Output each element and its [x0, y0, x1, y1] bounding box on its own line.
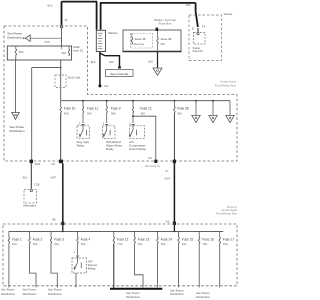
connector T101 on box edge: [30, 160, 33, 164]
svg-text:10A: 10A: [182, 242, 187, 246]
fuse Fuse 9 30A: [106, 101, 107, 114]
label T101: [35, 162, 41, 166]
fuse Fuse 28 40A: [174, 101, 175, 114]
label Windshield Wiper Motor Relay: [106, 140, 122, 151]
label Fuse 3 10A: [54, 238, 64, 247]
wire T101 to alternator: [30, 163, 32, 189]
svg-text:Distribution: Distribution: [48, 292, 62, 296]
svg-text:15A: 15A: [33, 242, 38, 246]
wire T1 to Multi fuse box: [61, 28, 63, 46]
junction on bus x=133: [132, 100, 134, 102]
label Fuse 2 15A: [33, 238, 43, 247]
label Fuse 4 15A: [81, 238, 91, 247]
reference arrow See Power Distribution (top left): [7, 32, 22, 40]
reference See Power Distribution #6: [196, 291, 210, 299]
svg-text:Fuse 34: Fuse 34: [161, 37, 172, 41]
svg-text:Distribution: Distribution: [1, 292, 15, 296]
wire label BLK: [91, 61, 96, 64]
alternator dashed box: [24, 190, 37, 204]
svg-text:Fuse/Relay Box: Fuse/Relay Box: [215, 84, 237, 88]
svg-text:Fuse 11: Fuse 11: [87, 107, 98, 111]
svg-text:(Reserve): (Reserve): [134, 43, 145, 46]
svg-text:BLK: BLK: [186, 3, 191, 7]
relay K2 windshield wiper motor relay: [103, 126, 116, 139]
wire fuse 14 exit: [157, 244, 159, 287]
relay K3 A/C compressor clutch relay: [129, 126, 144, 139]
label E7: [166, 170, 170, 173]
label Fuse 13 10A: [138, 238, 150, 247]
label Fuse 9 30A: [111, 107, 121, 116]
wire battery negative branch to See Grounds: [100, 53, 119, 66]
fuse Fuse 2 15A (driver box): [29, 231, 30, 244]
label A/F Sensor Relay: [88, 259, 98, 270]
svg-text:BLK: BLK: [109, 61, 114, 64]
wire Fuse 10 to connector C9: [60, 114, 62, 160]
label G1: [104, 84, 108, 88]
svg-text:7.5A: 7.5A: [117, 242, 123, 246]
wire Fuse 28 to connector E7: [173, 114, 175, 160]
wire Fuse 9 to wiper relay pin 1: [105, 114, 108, 126]
label T102: [34, 183, 40, 187]
wire bus to arrow x=196: [195, 101, 197, 116]
battery terminal fuse box: [123, 30, 182, 52]
label D4: [149, 156, 153, 160]
wire fuse 15 exit: [178, 244, 180, 287]
label Fuse 34 80A: [161, 37, 172, 46]
fuse multi-B 30A: [68, 46, 69, 56]
label Driver's Under-dash Fuse/Relay Box: [216, 205, 238, 216]
svg-text:WHT: WHT: [165, 178, 171, 181]
svg-text:B6: B6: [53, 218, 57, 222]
continuation arrow x=196: [192, 115, 200, 122]
wire bus to arrow x=230: [229, 101, 231, 116]
wire thick C9 to driver box (left feed): [62, 163, 64, 223]
junction on bus x=106.7: [106, 100, 108, 102]
wire main feed through ELD: [60, 60, 62, 101]
label E6: [166, 219, 170, 223]
svg-text:T3: T3: [202, 25, 206, 29]
under-hood fuse/relay box dashed outline: [4, 26, 237, 161]
label Fuse 1 10A: [12, 238, 22, 247]
svg-text:Fuse 12: Fuse 12: [117, 238, 129, 242]
relay K1 fog light relay: [77, 126, 90, 139]
terminal B / T3 labels: [192, 25, 205, 31]
svg-text:40A: 40A: [64, 111, 69, 115]
svg-text:10A: 10A: [138, 242, 143, 246]
svg-text:E6: E6: [166, 219, 170, 223]
svg-text:15A: 15A: [140, 111, 145, 115]
svg-text:C9: C9: [52, 162, 56, 166]
starter solenoid dashed box: [194, 33, 206, 45]
fuse Fuse 13 10A (driver box): [134, 231, 135, 244]
wire label WHT: [45, 41, 51, 44]
fuse Fuse 1 10A (driver box): [8, 231, 9, 244]
wire fuse 2 exit: [30, 244, 37, 287]
svg-text:Fuse 16: Fuse 16: [202, 238, 214, 242]
fuse Fuse 10 40A: [60, 101, 61, 114]
svg-text:BLK: BLK: [23, 177, 28, 180]
junction node: [60, 67, 62, 69]
connector E7 on box edge: [173, 160, 176, 164]
svg-text:Relay: Relay: [77, 144, 85, 148]
svg-text:40A: 40A: [177, 111, 182, 115]
label ELD Unit: [68, 76, 80, 80]
arrow to power distribution (down): [12, 113, 20, 120]
svg-text:B: B: [192, 27, 194, 31]
pin number 1: [74, 250, 76, 254]
label starter solenoid: [193, 46, 204, 53]
svg-text:D4: D4: [149, 156, 153, 160]
svg-text:Fuse 35: Fuse 35: [135, 37, 146, 41]
wire battery negative to ground G1: [99, 52, 101, 85]
svg-text:(Not used) (7): (Not used) (7): [145, 165, 160, 168]
fuse multi-A 50A: [15, 46, 16, 56]
svg-text:See Grounds: See Grounds: [110, 72, 128, 76]
pin number 2: [79, 121, 81, 125]
label 30A: [61, 51, 66, 55]
wire label BLK: [23, 177, 28, 180]
label Alternator: [23, 203, 36, 207]
continuation arrow x=230: [226, 115, 234, 122]
reference box See Grounds: [106, 70, 134, 77]
label Fuse 35 (Reserve): [134, 37, 146, 46]
svg-text:Relay: Relay: [88, 266, 96, 270]
label Starter: [224, 12, 233, 16]
fuse Fuse 14 15A (driver box): [157, 231, 158, 244]
svg-text:Fuse 28: Fuse 28: [177, 107, 189, 111]
wire label BLK (right): [186, 3, 191, 7]
wire label BLK: [109, 61, 114, 64]
svg-text:Distribution: Distribution: [196, 295, 210, 299]
fuse Fuse 4 15A (driver box): [77, 231, 78, 244]
svg-text:15A: 15A: [161, 242, 166, 246]
junction on bus x=83: [82, 100, 84, 102]
junction on bus x=196: [195, 100, 197, 102]
svg-text:Distribution: Distribution: [126, 295, 140, 299]
svg-text:Fuse 12: Fuse 12: [140, 107, 152, 111]
label Multi fuse 22: [73, 45, 83, 53]
svg-text:Fuse 13: Fuse 13: [138, 238, 150, 242]
svg-text:Fuse 1: Fuse 1: [12, 238, 22, 242]
drivers under-dash fuse/relay box dashed outline: [3, 224, 237, 286]
label Fuse 12 15A: [140, 107, 152, 116]
label Fuse 15 10A: [182, 238, 194, 247]
wire Fuse 11 to fog light relay pin 2: [81, 114, 84, 126]
wire label WHT: [51, 177, 57, 180]
label Fuse 14 15A: [161, 238, 173, 247]
svg-text:Fuse Box: Fuse Box: [159, 22, 172, 26]
wire A/F relay exit: [75, 273, 77, 287]
connector C9 on box edge: [59, 160, 63, 164]
label A/C Compressor Clutch Relay: [129, 140, 147, 151]
svg-text:Fuse 10: Fuse 10: [64, 107, 76, 111]
fuse Fuse 15 10A (driver box): [178, 231, 179, 244]
connector nub on fuse box top: [156, 28, 159, 31]
thick bottom wire: [110, 288, 162, 290]
svg-text:G1: G1: [104, 84, 108, 88]
reference See Power Distribution #2: [23, 288, 37, 296]
svg-text:BLK: BLK: [149, 61, 154, 64]
svg-text:Fuse 14: Fuse 14: [161, 238, 173, 242]
multi fuse 22 box: [7, 46, 71, 60]
svg-text:T1: T1: [64, 18, 68, 22]
alternator terminal: [30, 190, 32, 192]
svg-text:Fuse 4: Fuse 4: [81, 238, 91, 242]
wire fuse 34 to ground G2: [157, 52, 159, 69]
fuse Fuse 34: [157, 31, 158, 52]
arrow symbol: [23, 35, 30, 42]
continuation arrow x=213: [209, 115, 217, 122]
wire fuse 13 exit: [135, 244, 143, 287]
connector E6 on driver box edge: [173, 222, 176, 225]
svg-text:10A: 10A: [12, 242, 17, 246]
label Fuse 12 7.5A: [117, 238, 129, 247]
wire fuse 12 to thick bottom bus: [113, 244, 115, 288]
terminal square into See Grounds: [118, 66, 121, 68]
connector B6 on driver box edge: [61, 222, 64, 225]
ELD unit dashed box: [55, 75, 66, 88]
svg-text:Distribution: Distribution: [23, 292, 37, 296]
svg-text:Solenoid: Solenoid: [193, 49, 204, 53]
svg-text:Battery: Battery: [109, 31, 119, 35]
connector D4 on box edge: [154, 160, 157, 163]
label Fuse 28 40A: [177, 107, 189, 116]
wire arrow to T1 drop: [30, 37, 61, 39]
svg-text:Fuse 17: Fuse 17: [223, 238, 235, 242]
wire thick E7 to driver box (right feed): [173, 163, 175, 223]
fuse Fuse 11 20A: [82, 101, 83, 114]
wire fuse 17 exit: [219, 244, 221, 287]
wire B6 to bus: [62, 225, 64, 232]
battery terminal fuse box label: [154, 18, 176, 26]
junction on bus x=174.4: [173, 100, 175, 102]
svg-text:20A: 20A: [87, 111, 92, 115]
wire branch fuse 12 to connector D4: [133, 116, 156, 160]
fuse Fuse 12 15A: [132, 101, 133, 114]
fuse F35 dashed outline: [131, 34, 153, 49]
label Fuse 11 20A: [87, 107, 98, 116]
svg-text:ELD Unit: ELD Unit: [68, 76, 80, 80]
reference See Power Distribution #4: [126, 291, 140, 299]
svg-text:Fuse 2: Fuse 2: [33, 238, 43, 242]
reference See Power Distribution #1: [1, 288, 15, 296]
starter dashed box: [189, 15, 222, 61]
wire multi fuse A to See Power Distribution arrow: [15, 56, 17, 112]
wire fuse 4 to A/F sensor relay pin 1: [76, 244, 79, 258]
wire fuse 1 exit: [8, 244, 10, 287]
wire T1 inside box: [61, 46, 63, 49]
label Fuse 17 10A: [223, 238, 235, 247]
svg-text:15A: 15A: [202, 242, 207, 246]
svg-text:Relay: Relay: [106, 147, 114, 151]
label (Not used): [145, 165, 160, 168]
relay K4 A/F sensor relay: [72, 258, 87, 273]
fuse Fuse 12 7.5A (driver box): [113, 231, 114, 244]
svg-text:T101: T101: [35, 162, 41, 166]
svg-text:BLK: BLK: [91, 61, 96, 64]
svg-text:Clutch Relay: Clutch Relay: [129, 147, 147, 151]
fuse Fuse 35: [131, 34, 132, 45]
svg-text:T102: T102: [34, 183, 40, 187]
wire Fuse 12 to A/C relay pin 1: [131, 114, 134, 126]
svg-text:Fuse 15: Fuse 15: [182, 238, 194, 242]
bus wire under-hood fuse row: [61, 100, 230, 102]
battery BAT1: [96, 30, 105, 51]
svg-text:Fuse 3: Fuse 3: [54, 238, 64, 242]
ground point G1: [98, 84, 101, 87]
pin number 1: [103, 121, 105, 125]
label Under-hood Fuse/Relay Box: [215, 80, 237, 88]
label Fuse 16 15A: [202, 238, 214, 247]
label 50A: [19, 50, 24, 54]
wire battery positive to starter (right top feed): [100, 3, 198, 30]
svg-text:10A: 10A: [54, 242, 59, 246]
fuse Fuse 3 10A (driver box): [50, 231, 51, 244]
svg-text:30A: 30A: [111, 111, 116, 115]
connector T1: [60, 25, 63, 28]
label Fuse 10 40A: [64, 107, 76, 116]
wire E6 to bus: [174, 225, 176, 232]
junction node on fuse 12 wire: [132, 115, 134, 117]
label T1: [64, 18, 68, 22]
svg-text:30A: 30A: [61, 51, 66, 55]
bus wire driver box: [9, 230, 223, 232]
svg-text:Fuse 9: Fuse 9: [111, 107, 121, 111]
wire fuse 3 exit: [51, 244, 57, 287]
svg-text:BLK: BLK: [48, 4, 53, 8]
label C9: [52, 162, 56, 166]
svg-text:80A: 80A: [161, 43, 166, 46]
wire label BLK (left): [48, 4, 53, 8]
svg-text:50A: 50A: [19, 50, 24, 54]
label Fog Light Relay: [77, 140, 90, 148]
pin number 1: [129, 121, 131, 125]
svg-text:Distribution: Distribution: [170, 292, 184, 296]
svg-text:15A: 15A: [81, 242, 86, 246]
svg-text:10A: 10A: [223, 242, 228, 246]
svg-text:WHT: WHT: [45, 41, 51, 44]
wire branch to T101/alternator: [32, 68, 61, 160]
junction on bus x=213: [212, 100, 214, 102]
svg-text:Starter: Starter: [224, 12, 233, 16]
svg-text:Alternator: Alternator: [23, 203, 36, 207]
label B6: [53, 218, 57, 222]
wire fuse 16 exit: [198, 244, 200, 287]
battery label: [109, 31, 119, 35]
ground G2 symbol: [153, 68, 162, 75]
reference See Power Distribution #3: [48, 288, 62, 296]
wire label WHT: [165, 178, 171, 181]
label See Power Distribution: [10, 125, 25, 133]
svg-text:Distribution: Distribution: [7, 35, 22, 39]
wire label BLK: [149, 61, 154, 64]
svg-text:WHT: WHT: [51, 177, 57, 180]
fuse Fuse 16 15A (driver box): [199, 231, 200, 244]
wire bus to arrow x=213: [212, 101, 214, 116]
wire battery positive to T1 (left top feed): [62, 2, 98, 30]
reference See Power Distribution #5: [170, 289, 184, 297]
svg-text:Fuse/Relay Box: Fuse/Relay Box: [216, 212, 238, 216]
starter solenoid terminal: [197, 28, 199, 35]
svg-text:fuse 22: fuse 22: [73, 49, 83, 53]
fuse Fuse 17 10A (driver box): [219, 231, 220, 244]
svg-text:Distribution: Distribution: [10, 129, 25, 133]
